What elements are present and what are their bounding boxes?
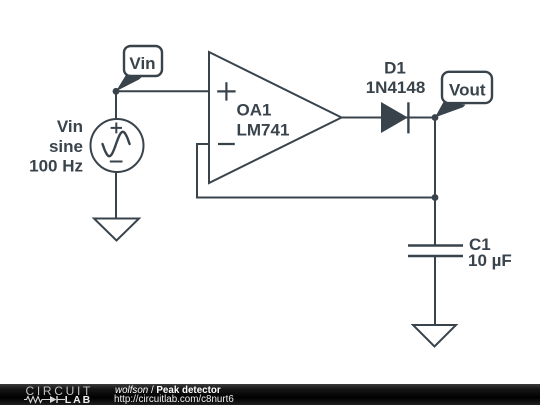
footer bar [0,384,540,405]
svg-text:LM741: LM741 [237,120,290,139]
voltage source minus sign [110,161,123,163]
wire Vout node down to capacitor [434,118,436,246]
diode D1 body [382,103,407,132]
wire node Vin to op-amp + input [116,90,209,92]
svg-text:10 µF: 10 µF [468,251,512,270]
footer url line [114,394,234,405]
node flag Vin pointer [116,74,142,91]
svg-text:Vin: Vin [57,117,83,136]
wire source bottom to ground [115,171,117,219]
logo diode symbol [50,396,57,403]
svg-text:1N4148: 1N4148 [366,78,426,97]
capacitor C1 top plate [408,244,463,247]
node flag Vout box [442,72,492,103]
footer credit line [115,386,221,395]
capacitor C1 bottom plate [408,255,463,258]
node junction feedback/cap [432,194,439,201]
svg-text:Vout: Vout [449,81,486,100]
voltage source sine wave [103,132,130,156]
svg-text:LAB: LAB [65,394,92,405]
node flag Vin box [124,46,162,76]
wire node Vin down to source top [115,91,117,120]
voltage source V1 circle [91,119,144,172]
svg-text:100 Hz: 100 Hz [29,157,83,176]
node dot Vout [432,114,439,121]
voltage source plus sign [111,123,122,134]
op-amp minus input symbol [218,143,235,145]
svg-text:OA1: OA1 [237,100,272,119]
wire capacitor bottom to ground [434,256,436,325]
logo resistor squiggle [24,397,50,403]
node dot Vin [113,88,120,95]
ground (capacitor) [413,325,456,347]
wire op-amp output to Vout node [341,117,435,119]
svg-text:sine: sine [49,137,83,156]
op-amp plus input symbol [217,82,235,100]
svg-text:D1: D1 [384,58,406,77]
ground (source) [94,219,139,241]
diode D1 cathode bar [407,102,409,133]
op-amp OA1 triangle [209,52,342,183]
CircuitLab logo [0,384,110,405]
wire feedback from op-amp inverting input [197,144,435,198]
node flag Vout pointer [435,101,466,117]
svg-text:Vin: Vin [129,54,155,73]
